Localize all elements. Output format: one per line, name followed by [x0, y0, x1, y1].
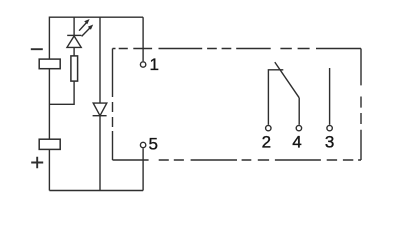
svg-text:1: 1	[149, 55, 158, 74]
relay outline dashed box top edge	[113, 48, 362, 50]
relay outline dashed box left edge	[112, 49, 114, 161]
diode D2 triangle	[93, 103, 107, 116]
pin 5 terminal circle	[140, 142, 145, 147]
pin 3 terminal circle	[327, 125, 332, 130]
pin 1 terminal circle	[140, 62, 145, 67]
pin 4 terminal circle	[296, 125, 301, 130]
diode D2 cathode bar	[93, 115, 107, 117]
wire left upper	[48, 17, 50, 60]
svg-text:5: 5	[148, 134, 157, 153]
wire left middle	[48, 69, 50, 140]
pin 2 terminal circle	[266, 125, 271, 130]
LED emission arrow 1	[79, 19, 90, 31]
wire diode branch lower	[99, 116, 101, 191]
resistor R2 (input box lower)	[39, 139, 60, 149]
wire pin 4 riser	[298, 98, 300, 125]
LED D1 triangle	[67, 36, 81, 47]
relay outline dashed box right edge	[360, 49, 362, 161]
wire resistor down to junction	[49, 81, 74, 104]
contact NC stub from pin 2	[268, 70, 283, 125]
svg-text:2: 2	[262, 132, 271, 151]
LED D1 cathode bar	[67, 34, 81, 36]
resistor R3 (series with LED)	[71, 56, 78, 81]
wire pin 3 riser	[329, 68, 331, 125]
LED emission arrow 2	[82, 25, 94, 37]
wire LED to resistor	[73, 47, 75, 56]
wire pin 5 to bottom bus	[142, 148, 144, 190]
wire bottom bus	[49, 190, 143, 192]
plus sign	[31, 157, 43, 169]
contact movable blade	[275, 62, 299, 98]
wire LED branch top	[73, 17, 75, 35]
resistor R1 (input box upper)	[39, 59, 60, 69]
wire diode branch upper	[99, 17, 101, 103]
relay outline dashed box bottom edge	[113, 159, 362, 161]
svg-text:4: 4	[292, 133, 301, 152]
wire top bus	[49, 16, 143, 18]
svg-text:3: 3	[325, 133, 334, 152]
wire to pin 1	[142, 17, 144, 61]
wire left lower	[48, 149, 50, 190]
minus sign	[31, 48, 43, 50]
